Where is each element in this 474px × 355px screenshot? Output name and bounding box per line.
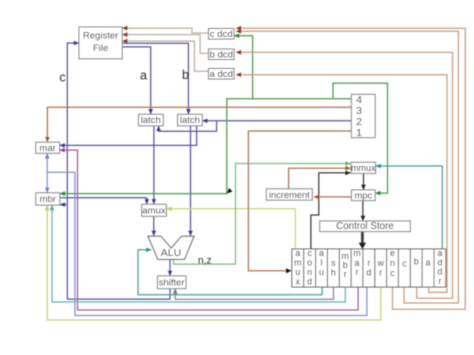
wire mpc to increment — [314, 196, 351, 198]
wire mbr field to mbr — [52, 206, 345, 303]
svg-text:increment: increment — [269, 190, 310, 200]
wire a bus (register file to a latch) — [122, 47, 151, 114]
svg-text:d: d — [307, 277, 312, 287]
wire clock phase 1 to MIR — [248, 131, 351, 271]
wire amux field to amux select — [167, 209, 296, 249]
wire c field to c decoder — [236, 31, 458, 303]
svg-text:ALU: ALU — [161, 247, 181, 259]
c decoder — [209, 29, 235, 40]
svg-text:Control Store: Control Store — [336, 221, 394, 232]
wire phase 4 branch to mpc — [333, 83, 388, 193]
wire a decoder to register file — [123, 41, 209, 71]
svg-text:d: d — [366, 267, 371, 277]
junction arrow at phase4 corner — [227, 188, 233, 194]
MIR register fields — [292, 249, 446, 287]
wire mar field control line — [60, 150, 358, 310]
mmux multiplexer — [351, 162, 376, 173]
wire wr field to mbr — [47, 206, 381, 321]
svg-text:amux: amux — [142, 205, 165, 216]
svg-text:o: o — [307, 258, 312, 268]
svg-text:Register: Register — [83, 31, 118, 42]
svg-text:h: h — [331, 267, 336, 277]
a latch — [139, 114, 164, 126]
wire increment to mmux — [289, 168, 351, 189]
svg-text:x: x — [296, 277, 301, 287]
mbr register — [36, 193, 60, 205]
svg-text:1: 1 — [356, 127, 362, 139]
svg-text:r: r — [344, 269, 347, 279]
svg-text:a: a — [295, 248, 300, 258]
wire mmux to mpc — [363, 173, 365, 189]
wire b latch output to mar — [60, 126, 197, 146]
wire b field to b decoder — [236, 52, 452, 298]
wire rd field to mar and mbr — [46, 154, 48, 193]
b latch — [178, 114, 203, 126]
svg-text:b: b — [182, 68, 189, 82]
svg-text:u: u — [295, 267, 300, 277]
svg-text:c: c — [390, 268, 395, 278]
wire b bus (register file to b latch) — [122, 43, 188, 114]
svg-text:mbr: mbr — [40, 194, 56, 205]
svg-text:m: m — [294, 258, 301, 268]
wire clock phase 2 to latches — [203, 120, 352, 122]
increment unit — [266, 189, 312, 200]
wire c decoder to register file — [123, 28, 209, 33]
b decoder — [209, 49, 235, 60]
svg-text:n,z: n,z — [198, 256, 212, 267]
svg-text:c: c — [307, 248, 312, 258]
wire phase 4 branch to mbr — [60, 99, 252, 194]
shifter — [158, 276, 187, 289]
mpc register — [352, 190, 376, 201]
svg-text:n: n — [307, 267, 312, 277]
svg-text:a dcd: a dcd — [209, 69, 232, 80]
svg-text:mpc: mpc — [354, 190, 372, 201]
mar register — [36, 142, 60, 153]
control store — [320, 221, 411, 232]
wire ALU output to shifter — [169, 259, 171, 275]
svg-text:c: c — [59, 71, 65, 85]
wire a field to a decoder — [236, 75, 447, 293]
svg-text:m: m — [353, 248, 360, 258]
wire sh field to shifter — [175, 287, 333, 299]
wire control store to MIR thick bus — [361, 232, 364, 244]
svg-text:r: r — [356, 267, 359, 277]
wire cond field to mmux — [311, 173, 350, 249]
wire addr field to mmux — [376, 166, 442, 249]
svg-text:c dcd: c dcd — [210, 29, 233, 40]
wire mpc to control store — [362, 201, 364, 221]
wire clock phase 3 to mar — [47, 107, 351, 142]
svg-text:b: b — [414, 257, 419, 267]
wire c bus branch to mbr — [60, 204, 67, 206]
wire clock phase 4 net — [234, 36, 351, 99]
ALU — [148, 236, 194, 259]
svg-text:a: a — [426, 257, 431, 267]
svg-text:n: n — [390, 258, 395, 268]
svg-text:r: r — [438, 276, 441, 286]
wire alu field to ALU — [138, 250, 322, 295]
wire n z flags from ALU to mmux — [174, 164, 351, 265]
wire mbr output to amux — [60, 198, 147, 204]
svg-text:a: a — [140, 68, 147, 82]
svg-text:File: File — [93, 43, 108, 54]
register file — [79, 27, 122, 59]
svg-text:latch: latch — [180, 115, 200, 126]
svg-text:a: a — [319, 248, 324, 258]
svg-text:c: c — [402, 258, 407, 268]
wire b latch output to ALU right input — [190, 126, 192, 236]
svg-text:e: e — [390, 248, 395, 258]
svg-text:mmux: mmux — [351, 163, 376, 173]
clock phase box 4 3 2 1 — [351, 94, 375, 137]
wire a latch output to amux — [153, 126, 155, 204]
wire enc field to c decoder — [236, 28, 465, 309]
svg-text:mar: mar — [39, 143, 55, 154]
amux multiplexer — [142, 204, 167, 216]
a decoder — [209, 69, 235, 80]
svg-text:b dcd: b dcd — [209, 50, 232, 61]
wire b decoder to register file — [123, 35, 209, 54]
svg-text:shifter: shifter — [159, 277, 185, 288]
wire amux output to ALU left input — [153, 216, 155, 235]
svg-text:latch: latch — [141, 115, 161, 126]
svg-text:l: l — [321, 258, 323, 268]
wire c bus (shifter output to register file) — [67, 43, 170, 299]
svg-text:r: r — [379, 267, 382, 277]
svg-text:u: u — [319, 267, 324, 277]
